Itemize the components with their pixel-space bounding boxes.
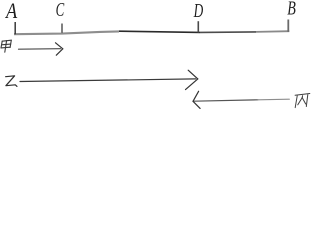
character bing (丙) [295, 94, 310, 108]
tick B [287, 20, 289, 32]
arrow of yi (long rightward) [20, 70, 198, 89]
tick A [14, 22, 16, 34]
tick D [197, 21, 199, 32]
main line segment D-to-right (dim gray) [200, 31, 256, 34]
svg-text:C: C [56, 0, 65, 21]
svg-text:B: B [287, 0, 296, 20]
character jia (甲) [1, 40, 11, 52]
main line segment A-to-mid (gray) [14, 31, 119, 34]
main line segment mid (dark) [119, 31, 200, 32]
main line segment right-to-B (gray) [256, 30, 289, 33]
arrow of bing (leftward) [193, 91, 289, 108]
tick C [61, 24, 63, 33]
character yi (乙, Z-like) [6, 76, 17, 87]
svg-text:D: D [193, 0, 204, 22]
svg-text:A: A [4, 0, 17, 23]
arrow of jia (rightward) [19, 43, 63, 55]
